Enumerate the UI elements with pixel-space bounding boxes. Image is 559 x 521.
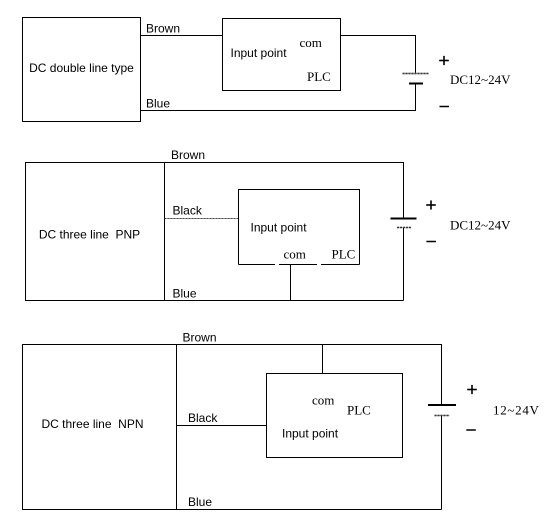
svg-text:DC three line NPN: DC three line NPN — [41, 417, 143, 431]
svg-text:DC three line PNP: DC three line PNP — [39, 228, 140, 242]
wire: blue (box bottom to battery -) — [165, 300, 404, 302]
battery B1 negative plate — [409, 83, 423, 85]
svg-text:Brown: Brown — [146, 22, 180, 36]
PLC box U1 — [223, 19, 341, 91]
svg-text:PLC: PLC — [347, 403, 371, 418]
label: - — [440, 106, 450, 108]
label: + — [467, 385, 477, 394]
label: - — [466, 429, 476, 431]
svg-text:DC double line type: DC double line type — [29, 61, 134, 75]
svg-text:com: com — [284, 247, 306, 262]
svg-text:PLC: PLC — [332, 247, 356, 262]
sensor box: DC three line PNP — [26, 163, 165, 301]
battery B2 positive plate — [391, 218, 417, 220]
battery B2 negative plate (dashed) — [397, 227, 411, 229]
svg-text:Input point: Input point — [251, 221, 308, 235]
svg-text:Blue: Blue — [146, 97, 170, 111]
wire: black (dotted, sensor to PLC input) — [165, 218, 239, 220]
svg-text:Brown: Brown — [183, 331, 217, 345]
wire: battery - to sensor blue — [141, 84, 416, 111]
wire: com to blue — [290, 265, 292, 301]
svg-text:Blue: Blue — [188, 495, 212, 509]
wire: brown (box top to battery +) — [177, 345, 442, 405]
svg-text:DC12~24V: DC12~24V — [450, 72, 511, 87]
svg-text:com: com — [312, 393, 334, 408]
svg-text:Black: Black — [173, 204, 203, 218]
wire: brown (sensor to PLC) — [141, 35, 223, 37]
battery B1 positive plate (dashed) — [403, 73, 429, 75]
wire: PLC com to battery + — [341, 36, 416, 74]
svg-text:Black: Black — [188, 411, 218, 425]
svg-text:Brown: Brown — [171, 148, 205, 162]
svg-text:Input point: Input point — [231, 46, 288, 60]
label: - — [426, 241, 436, 243]
wire: brown drop to com — [322, 345, 324, 374]
svg-text:12~24V: 12~24V — [493, 403, 540, 418]
sensor box: DC double line type — [23, 18, 141, 122]
svg-text:DC12~24V: DC12~24V — [450, 218, 511, 233]
wire: battery - to blue — [403, 228, 405, 301]
svg-text:Blue: Blue — [173, 287, 197, 301]
label: + — [426, 200, 436, 209]
PLC box U3 — [267, 374, 403, 458]
battery B3 positive plate — [428, 404, 456, 406]
PLC box U2 — [239, 190, 360, 265]
label: + — [439, 56, 449, 65]
wire: battery - to blue — [441, 416, 443, 510]
svg-text:PLC: PLC — [307, 69, 331, 84]
svg-text:com: com — [300, 35, 322, 50]
svg-text:Input point: Input point — [282, 427, 339, 441]
wire: brown (box top to battery +) — [165, 163, 404, 219]
wire: blue (box bottom to battery -) — [177, 509, 442, 511]
wire: black (sensor to PLC input) — [177, 425, 267, 427]
battery B3 negative plate (dashed) — [435, 415, 450, 417]
sensor box: DC three line NPN — [23, 345, 177, 510]
